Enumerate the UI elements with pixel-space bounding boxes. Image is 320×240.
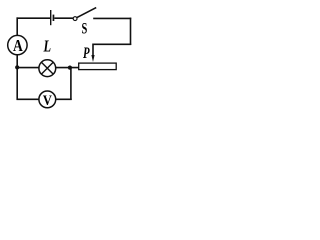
switch S blade (open)	[77, 8, 96, 18]
wire lamp row left (junction to lamp)	[17, 67, 39, 69]
switch S pivot circle	[73, 17, 77, 21]
background	[0, 0, 145, 131]
rheostat wiper arrowhead	[91, 55, 94, 62]
wire left vertical upper (corner down to ammeter)	[16, 17, 18, 35]
rheostat body R	[79, 63, 117, 70]
wire right vertical (corner down to wiper wire)	[130, 18, 132, 45]
wire voltmeter row left	[17, 98, 40, 100]
wire left vertical lower (ammeter to bottom corner)	[16, 55, 18, 100]
svg-text:A: A	[13, 36, 23, 55]
wire lamp row right (lamp to rheostat)	[56, 67, 79, 69]
svg-text:V: V	[43, 93, 52, 109]
wire top-left horizontal (corner to battery)	[17, 17, 51, 19]
wire voltmeter row right	[56, 98, 72, 100]
svg-text:L: L	[43, 37, 51, 56]
node junction right (dot)	[68, 66, 72, 70]
svg-text:P: P	[82, 45, 89, 62]
voltmeter V	[39, 91, 56, 108]
ammeter A	[8, 35, 27, 54]
wire right branch vertical (junction down to voltmeter row)	[70, 68, 72, 100]
svg-text:S: S	[82, 21, 88, 38]
wire battery to switch pivot	[54, 17, 73, 19]
battery cell B1 long plate	[50, 10, 51, 25]
wire switch to top-right corner	[93, 17, 131, 19]
node junction left (dot)	[15, 65, 19, 69]
wire wiper horizontal	[93, 43, 131, 45]
lamp L (circle with X)	[39, 60, 56, 77]
rheostat wiper arrow stem	[92, 44, 94, 57]
battery cell B1 short thick plate	[53, 15, 55, 21]
